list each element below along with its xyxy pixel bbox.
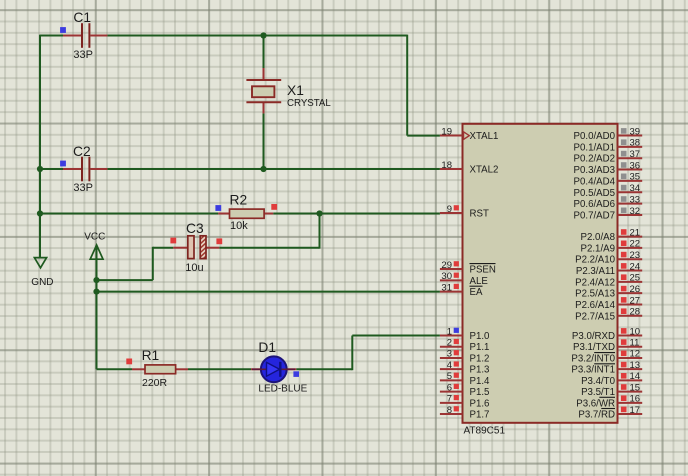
svg-text:1: 1 — [447, 326, 452, 337]
svg-text:3: 3 — [447, 349, 452, 360]
svg-text:LED-BLUE: LED-BLUE — [258, 384, 307, 395]
svg-text:P2.6/A14: P2.6/A14 — [575, 300, 615, 311]
svg-text:R2: R2 — [230, 192, 248, 207]
svg-text:10: 10 — [630, 326, 641, 337]
svg-text:33P: 33P — [73, 49, 93, 61]
svg-text:P3.2/INT0: P3.2/INT0 — [571, 353, 615, 364]
svg-text:9: 9 — [447, 204, 452, 215]
svg-text:D1: D1 — [258, 340, 276, 355]
svg-text:25: 25 — [630, 273, 641, 284]
svg-text:P3.3/INT1: P3.3/INT1 — [571, 365, 615, 376]
svg-text:XTAL2: XTAL2 — [470, 165, 499, 176]
svg-text:33: 33 — [630, 194, 641, 205]
svg-text:7: 7 — [447, 394, 452, 405]
svg-text:18: 18 — [441, 160, 452, 171]
svg-text:C2: C2 — [73, 144, 91, 159]
svg-text:P0.7/AD7: P0.7/AD7 — [574, 210, 615, 221]
svg-text:8: 8 — [447, 405, 452, 416]
svg-text:10k: 10k — [230, 220, 248, 232]
svg-text:P3.0/RXD: P3.0/RXD — [572, 331, 615, 342]
svg-text:19: 19 — [441, 126, 452, 137]
svg-text:GND: GND — [31, 277, 53, 288]
svg-text:P0.4/AD4: P0.4/AD4 — [574, 176, 616, 187]
svg-text:P0.1/AD1: P0.1/AD1 — [574, 142, 615, 153]
svg-text:36: 36 — [630, 160, 641, 171]
svg-text:PSEN: PSEN — [470, 265, 496, 276]
svg-text:2: 2 — [447, 338, 452, 349]
svg-text:33P: 33P — [73, 182, 93, 194]
svg-text:AT89C51: AT89C51 — [464, 426, 506, 437]
svg-text:P1.7: P1.7 — [470, 410, 490, 421]
svg-text:10u: 10u — [185, 262, 203, 274]
svg-text:34: 34 — [630, 183, 641, 194]
svg-text:12: 12 — [630, 349, 641, 360]
svg-text:220R: 220R — [142, 377, 168, 389]
svg-text:5: 5 — [447, 371, 452, 382]
svg-text:13: 13 — [630, 360, 641, 371]
svg-text:31: 31 — [441, 282, 452, 293]
svg-text:30: 30 — [441, 271, 452, 282]
svg-text:21: 21 — [630, 227, 641, 238]
svg-text:14: 14 — [630, 371, 641, 382]
svg-text:P1.2: P1.2 — [470, 353, 490, 364]
svg-text:P1.6: P1.6 — [470, 398, 490, 409]
svg-text:16: 16 — [630, 394, 641, 405]
svg-text:P2.3/A11: P2.3/A11 — [576, 266, 615, 277]
svg-text:P3.4/T0: P3.4/T0 — [581, 376, 616, 387]
svg-text:P1.1: P1.1 — [470, 342, 490, 353]
svg-text:C3: C3 — [186, 221, 204, 236]
svg-text:P0.3/AD3: P0.3/AD3 — [574, 165, 615, 176]
svg-text:28: 28 — [630, 307, 641, 318]
svg-text:P2.1/A9: P2.1/A9 — [581, 243, 615, 254]
svg-text:37: 37 — [630, 149, 641, 160]
svg-text:6: 6 — [447, 382, 452, 393]
svg-text:P0.5/AD5: P0.5/AD5 — [574, 188, 615, 199]
svg-text:RST: RST — [470, 209, 489, 220]
svg-text:17: 17 — [630, 405, 641, 416]
svg-text:11: 11 — [630, 338, 640, 349]
svg-text:38: 38 — [630, 138, 641, 149]
svg-text:P2.4/A12: P2.4/A12 — [575, 277, 615, 288]
svg-text:P2.2/A10: P2.2/A10 — [575, 255, 615, 266]
svg-text:P2.7/A15: P2.7/A15 — [575, 311, 615, 322]
svg-text:VCC: VCC — [84, 231, 105, 242]
svg-text:P1.5: P1.5 — [470, 387, 490, 398]
svg-text:26: 26 — [630, 284, 641, 295]
svg-text:P1.4: P1.4 — [470, 376, 491, 387]
svg-text:P0.0/AD0: P0.0/AD0 — [574, 131, 616, 142]
svg-text:P1.3: P1.3 — [470, 365, 490, 376]
svg-text:P1.0: P1.0 — [470, 331, 491, 342]
svg-text:CRYSTAL: CRYSTAL — [287, 98, 331, 109]
svg-text:P3.6/WR: P3.6/WR — [576, 398, 615, 409]
svg-text:39: 39 — [630, 126, 641, 137]
svg-text:35: 35 — [630, 172, 641, 183]
svg-text:P3.7/RD: P3.7/RD — [578, 410, 615, 421]
svg-text:C1: C1 — [73, 10, 91, 25]
svg-text:P3.1/TXD: P3.1/TXD — [573, 342, 615, 353]
svg-text:27: 27 — [630, 295, 641, 306]
svg-text:23: 23 — [630, 250, 641, 261]
svg-text:15: 15 — [630, 382, 641, 393]
svg-text:EA: EA — [470, 287, 483, 298]
svg-text:P0.2/AD2: P0.2/AD2 — [574, 154, 615, 165]
svg-text:32: 32 — [630, 206, 641, 217]
svg-text:ALE: ALE — [470, 276, 489, 287]
svg-text:P2.0/A8: P2.0/A8 — [581, 232, 615, 243]
svg-text:24: 24 — [630, 261, 641, 272]
svg-text:22: 22 — [630, 239, 641, 250]
svg-text:P2.5/A13: P2.5/A13 — [575, 289, 615, 300]
svg-text:29: 29 — [441, 260, 452, 271]
svg-text:XTAL1: XTAL1 — [470, 131, 499, 142]
svg-text:R1: R1 — [142, 348, 160, 363]
svg-text:4: 4 — [447, 360, 452, 371]
svg-text:P3.5/T1: P3.5/T1 — [581, 387, 615, 398]
svg-text:X1: X1 — [287, 83, 304, 98]
svg-text:P0.6/AD6: P0.6/AD6 — [574, 199, 615, 210]
